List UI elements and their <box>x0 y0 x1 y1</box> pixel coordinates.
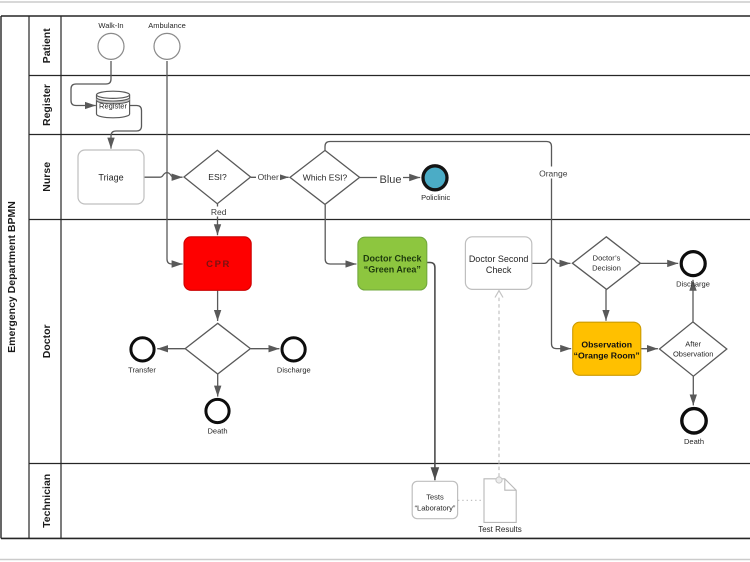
wire Which ESI to Policlinic (Blue) <box>360 177 420 179</box>
svg-text:“Green Area”: “Green Area” <box>364 264 421 274</box>
gateway Doctor's Decision <box>572 237 640 290</box>
wire gateway to Death left <box>217 374 219 396</box>
svg-text:Policlinic: Policlinic <box>421 193 450 202</box>
end event Transfer <box>128 338 156 375</box>
svg-text:Death: Death <box>684 437 704 446</box>
wire ESI to CPR (Red) <box>217 204 219 235</box>
svg-text:Nurse: Nurse <box>41 162 53 192</box>
svg-text:Register: Register <box>41 84 53 126</box>
wire Register to Triage <box>111 106 142 149</box>
task Observation Orange Room <box>573 322 641 375</box>
svg-text:Discharge: Discharge <box>676 280 710 289</box>
svg-text:Doctor Check: Doctor Check <box>363 253 423 263</box>
svg-text:Observation: Observation <box>581 339 632 349</box>
svg-text:“Orange Room”: “Orange Room” <box>574 351 640 361</box>
wire Which ESI to Doctor Check Green <box>325 205 356 264</box>
task Tests Laboratory <box>412 481 457 518</box>
svg-text:Walk-In: Walk-In <box>98 21 123 30</box>
gateway ESI? <box>184 150 251 203</box>
svg-text:Observation: Observation <box>673 349 713 358</box>
wire Doctor Check Green to Tests <box>427 263 435 481</box>
lane divider Patient/Register <box>29 75 750 77</box>
gateway Which ESI? <box>290 150 360 204</box>
svg-text:Discharge: Discharge <box>277 366 311 375</box>
svg-text:Check: Check <box>486 265 512 275</box>
data store Register <box>97 91 130 118</box>
svg-text:Decision: Decision <box>592 264 621 273</box>
svg-text:Which ESI?: Which ESI? <box>303 172 348 182</box>
wire Observation to After Observation <box>641 348 658 350</box>
message flow Test Results to Doctor Second Check (dashed) <box>495 291 503 477</box>
svg-text:Test Results: Test Results <box>478 525 522 534</box>
svg-text:Register: Register <box>99 102 127 111</box>
svg-text:Doctor: Doctor <box>41 324 53 358</box>
svg-text:Tests: Tests <box>426 493 444 502</box>
wire Ambulance to CPR <box>167 61 183 264</box>
wire Doctors Decision to Discharge <box>641 262 679 264</box>
wire CPR to gateway <box>217 291 219 321</box>
task CPR <box>184 237 251 290</box>
wire Doctor Second Check to Doctors Decision with hop <box>532 259 571 264</box>
wire gateway to Transfer <box>157 348 185 350</box>
wire Which ESI to Observation (Orange) <box>325 142 571 349</box>
svg-text:Triage: Triage <box>98 173 123 183</box>
task Doctor Second Check <box>465 237 531 290</box>
svg-text:Patient: Patient <box>41 28 53 64</box>
wire Walk-In to Register <box>71 61 111 106</box>
svg-text:“Laboratory”: “Laboratory” <box>415 504 456 513</box>
task Doctor Check Green Area <box>358 237 427 290</box>
svg-text:Technician: Technician <box>41 474 53 528</box>
wire After Observation to Discharge (up) <box>692 280 694 322</box>
svg-text:Emergency Department BPMN: Emergency Department BPMN <box>6 201 18 353</box>
wire Doctors Decision to Observation <box>605 290 607 321</box>
label Blue <box>377 170 403 186</box>
svg-text:ESI?: ESI? <box>208 172 227 182</box>
start event Walk-In <box>98 21 124 59</box>
lane divider Doctor/Technician <box>29 463 750 465</box>
label Orange <box>539 167 568 179</box>
task Triage <box>78 150 144 204</box>
lane divider Register/Nurse <box>29 134 750 136</box>
svg-text:Ambulance: Ambulance <box>148 21 186 30</box>
start event Ambulance <box>148 21 186 59</box>
wire ESI to Which ESI (Other) <box>251 176 289 178</box>
association Tests to Test Results (dotted) <box>458 499 484 501</box>
svg-text:Death: Death <box>207 427 227 436</box>
svg-text:CPR: CPR <box>206 259 231 270</box>
svg-text:Orange: Orange <box>539 169 568 179</box>
wire Triage to ESI with hop <box>145 173 183 178</box>
label Red <box>209 207 228 217</box>
wire gateway to Discharge left <box>251 348 280 350</box>
svg-text:Doctor’s: Doctor’s <box>593 254 621 263</box>
svg-text:Red: Red <box>211 207 227 217</box>
end event Discharge right <box>676 252 710 289</box>
label Other <box>256 171 280 183</box>
gateway After Observation <box>660 322 727 376</box>
end event Discharge left <box>277 338 311 375</box>
end event Death left <box>206 399 229 435</box>
svg-text:Transfer: Transfer <box>128 366 156 375</box>
svg-text:After: After <box>685 339 701 348</box>
wire After Observation to Death <box>692 376 694 405</box>
gateway after CPR (unlabeled) <box>185 323 250 374</box>
lane divider Nurse/Doctor <box>29 219 750 221</box>
end event Death right <box>682 409 706 446</box>
end event Policlinic <box>421 166 450 202</box>
svg-text:Other: Other <box>258 172 279 182</box>
data object Test Results <box>478 477 522 534</box>
svg-text:Blue: Blue <box>379 174 401 186</box>
svg-text:Doctor Second: Doctor Second <box>469 254 529 264</box>
